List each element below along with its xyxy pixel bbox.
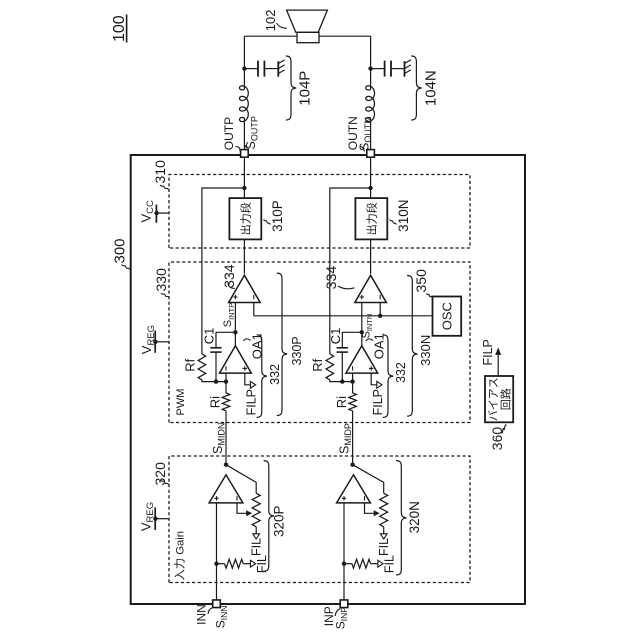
node feedback tap P (242, 186, 246, 190)
svg-text:Ri: Ri (208, 396, 223, 408)
wire amp feedback diagonal (N) (353, 465, 384, 494)
brace 320N (396, 461, 406, 575)
label 350 (413, 269, 432, 298)
svg-text:350: 350 (413, 269, 429, 293)
svg-text:334: 334 (221, 264, 237, 288)
brace 332 (P) (257, 335, 267, 418)
resistor gain pot (N) (380, 493, 388, 526)
node amp out N (350, 463, 354, 467)
comparator 334 (N) (355, 275, 387, 302)
amp gain (P) (209, 475, 243, 503)
speaker 102 (287, 10, 328, 43)
svg-text:332: 332 (268, 364, 282, 385)
wire S_MIDP (352, 411, 354, 465)
capacitor C1 (N) (337, 332, 362, 381)
svg-text:FILP: FILP (481, 339, 495, 365)
svg-text:FIL: FIL (377, 538, 391, 556)
FILP input N (371, 373, 382, 388)
node OSC line N junction (378, 314, 382, 318)
op-amp OA1 (P) (220, 346, 252, 373)
svg-text:C1: C1 (328, 328, 343, 345)
amp- mark (N) (364, 496, 366, 500)
dashed box 320 input gain section (169, 456, 470, 583)
wire OA1 out N (S_INTN) (361, 303, 363, 346)
amp gain (N) (337, 475, 371, 503)
resistor input FIL (N) (344, 559, 378, 568)
node feedback tap N (368, 186, 372, 190)
svg-text:OA1: OA1 (372, 333, 387, 359)
label 320 (152, 462, 169, 486)
capacitor 104P-C (246, 61, 277, 77)
wire feedback P (202, 188, 245, 354)
FIL arrow (pot N) (380, 534, 387, 539)
terminal INP (340, 600, 348, 608)
label S_OUTP (244, 116, 260, 149)
FILP input P (245, 373, 256, 388)
svg-text:Rf: Rf (182, 358, 197, 371)
svg-text:310P: 310P (270, 200, 285, 232)
label 310N (390, 200, 412, 232)
svg-text:出力段: 出力段 (238, 202, 252, 235)
svg-text:回路: 回路 (499, 388, 512, 410)
wire S_MIDN (225, 411, 227, 465)
node OUTP filter junction (242, 66, 246, 70)
wire comparator- to OSC line (N) (379, 303, 381, 316)
svg-text:PWM: PWM (175, 389, 187, 416)
resistor Ri (N) (349, 393, 357, 411)
node amp out P (224, 463, 228, 467)
FILP output arrow (495, 347, 501, 376)
svg-text:出力段: 出力段 (364, 202, 378, 235)
label 310 (152, 160, 169, 190)
inductor 104P-L (240, 86, 249, 122)
capacitor C1 (P) (210, 332, 235, 381)
dashed box 310 output stage section (169, 175, 470, 249)
svg-text:Ri: Ri (334, 396, 349, 408)
supply V_REG (PWM) (139, 325, 169, 354)
wire OUTP (243, 118, 245, 150)
label OUTP (222, 117, 240, 152)
label INN (195, 604, 214, 625)
block 310N output stage (355, 198, 387, 239)
node FIL tap (N in) (342, 562, 346, 566)
terminal INN (213, 600, 221, 608)
brace 104P (286, 56, 296, 120)
svg-text:OSC: OSC (440, 302, 455, 330)
svg-text:Rf: Rf (310, 358, 325, 371)
comparator- mark (P) (253, 295, 255, 299)
wire OUTN to speaker corner (370, 36, 372, 89)
brace 330N (407, 276, 417, 417)
svg-text:310: 310 (152, 160, 168, 184)
wire OUTP to speaker corner (243, 36, 245, 89)
wire pot to FIL arrow (N) (383, 527, 385, 534)
label 102 (263, 9, 287, 31)
svg-text:330: 330 (153, 268, 169, 292)
svg-text:334: 334 (323, 266, 339, 290)
label 334 (P) (221, 264, 237, 288)
label OA1 (P) (244, 333, 265, 359)
ground (104P) (278, 60, 284, 77)
svg-text:INN: INN (195, 604, 209, 625)
label OA1 (N) (366, 333, 387, 359)
label INP (322, 606, 341, 626)
svg-text:102: 102 (263, 9, 278, 31)
label 330 (153, 268, 169, 298)
svg-text:FIL: FIL (249, 538, 263, 556)
wire Ri to OA1- (N) (352, 373, 354, 393)
wire Ri to OA1- (P) (225, 373, 227, 393)
capacitor 104N-C (373, 61, 404, 77)
svg-text:330P: 330P (290, 336, 304, 365)
wire 310P to OUTP terminal (243, 157, 245, 198)
node S_INTP (233, 330, 237, 334)
svg-text:C1: C1 (202, 328, 217, 345)
resistor gain pot (P) (252, 493, 260, 526)
svg-text:FILP: FILP (371, 389, 385, 415)
svg-text:330N: 330N (418, 335, 433, 366)
FIL arrow (P in) (250, 560, 255, 567)
frame label 100 (111, 15, 128, 43)
svg-text:FILP: FILP (245, 389, 259, 415)
comparator- mark (N) (379, 295, 381, 299)
op-amp OA1 (N) (346, 346, 378, 373)
FIL arrow (pot P) (253, 534, 260, 539)
node FIL tap (P in) (214, 562, 218, 566)
wire INP input (343, 503, 345, 600)
wire speaker right (to OUTN) (319, 35, 371, 37)
wire OUTN (370, 118, 372, 150)
label 334 (N) (323, 266, 355, 290)
wire INN input (216, 503, 218, 600)
svg-text:104P: 104P (297, 71, 314, 106)
svg-text:OUTP: OUTP (222, 117, 236, 150)
OA1+ mark (N) (369, 366, 373, 370)
wiper arrow (N) (365, 503, 380, 516)
amp+ mark (N) (342, 496, 346, 500)
amp+ mark (P) (214, 496, 218, 500)
wire 310N to OUTN terminal (370, 157, 372, 198)
wire OSC distribution line (254, 315, 433, 317)
resistor Rf (P) (198, 354, 206, 380)
resistor Ri (P) (222, 393, 230, 411)
OA1- mark (N) (352, 366, 354, 370)
inductor 104N-L (366, 86, 375, 122)
block 310P output stage (229, 198, 261, 239)
wiper arrow (P) (237, 503, 252, 516)
svg-text:100: 100 (111, 15, 128, 42)
svg-text:入力 Gain: 入力 Gain (173, 531, 186, 581)
ground (104N) (405, 60, 411, 77)
brace 332 (N) (383, 335, 393, 418)
svg-text:332: 332 (394, 362, 408, 383)
svg-text:310N: 310N (396, 200, 411, 232)
OA1- mark (P) (225, 366, 227, 370)
FIL arrow (N in) (378, 560, 383, 567)
svg-text:320: 320 (152, 462, 168, 486)
label 300 (112, 238, 131, 269)
supply V_REG (gain) (138, 502, 169, 531)
brace 104N (411, 56, 421, 120)
wire feedback N (330, 188, 371, 354)
brace 320P (264, 461, 274, 572)
amp- mark (P) (236, 496, 238, 500)
wire comparatorP to 310P (243, 239, 245, 273)
block bias circuit 360 (485, 376, 513, 422)
svg-text:320N: 320N (407, 501, 422, 533)
node C1 tap N (340, 379, 344, 383)
node OUTN filter junction (368, 66, 372, 70)
wire comparatorN to 310N (370, 239, 372, 273)
oscillator OSC 350 (433, 297, 462, 336)
comparator+ mark (N) (360, 295, 364, 299)
node C1 tap P (214, 379, 218, 383)
wire speaker left (to OUTP) (244, 35, 297, 37)
label 360 (489, 425, 507, 450)
wire Rf to rail N (330, 380, 353, 382)
svg-text:FIL: FIL (383, 555, 397, 573)
dashed box 330 PWM section (169, 262, 470, 423)
node OA1- P (224, 379, 228, 383)
wire pot to FIL arrow (P) (255, 527, 257, 534)
IC box 300 (131, 155, 525, 604)
svg-text:バイアス: バイアス (487, 377, 500, 421)
terminal OUTP (241, 150, 249, 158)
brace 330P (277, 273, 287, 415)
label S_OUTN (358, 117, 374, 151)
label OUTN (346, 116, 364, 151)
node S_INTN (360, 330, 364, 334)
label 310P (264, 200, 285, 232)
node OA1- N (350, 379, 354, 383)
resistor input FIL (P) (217, 559, 251, 568)
svg-text:300: 300 (112, 238, 129, 263)
wire Rf to rail P (202, 380, 226, 382)
wire amp feedback diagonal (P) (226, 465, 256, 494)
terminal OUTN (367, 150, 375, 158)
comparator+ mark (P) (233, 295, 237, 299)
supply V_CC (138, 200, 169, 223)
svg-text:104N: 104N (423, 70, 440, 106)
wire OA1 out P (S_INTP) (234, 303, 236, 346)
comparator 334 (P) (229, 275, 261, 302)
OA1+ mark (P) (243, 366, 247, 370)
wire comparator- to OSC line (P) (253, 303, 255, 316)
svg-text:320P: 320P (272, 505, 287, 537)
resistor Rf (N) (326, 354, 334, 380)
